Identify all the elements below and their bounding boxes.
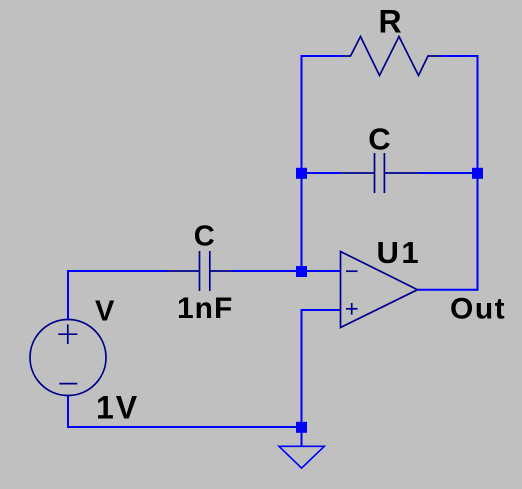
- wire resistor to top right corner: [439, 55, 479, 57]
- wire left feedback vertical: [301, 56, 303, 271]
- voltage source V: [30, 320, 106, 396]
- wire feedback cap right: [419, 172, 478, 174]
- svg-text:1nF: 1nF: [177, 292, 233, 325]
- svg-text:R: R: [379, 4, 402, 40]
- wire junction to ground: [301, 427, 303, 446]
- node junction feedback-left: [296, 168, 307, 179]
- capacitor C feedback: [340, 153, 419, 193]
- wire right feedback vertical: [477, 55, 479, 291]
- svg-text:Out: Out: [450, 292, 506, 325]
- node junction feedback-right: [472, 168, 483, 179]
- wire output: [418, 289, 478, 291]
- svg-text:V: V: [95, 296, 115, 328]
- wire noninverting input: [302, 310, 341, 427]
- wire top left to resistor: [301, 55, 345, 57]
- node junction inverting input: [296, 266, 307, 277]
- capacitor C series: [167, 251, 232, 291]
- ground: [279, 446, 324, 468]
- wire series cap to inverting node: [232, 270, 341, 272]
- svg-text:U1: U1: [377, 235, 422, 270]
- svg-text:C: C: [368, 121, 390, 156]
- svg-text:C: C: [194, 220, 215, 252]
- resistor R: [344, 37, 440, 76]
- svg-text:1V: 1V: [96, 390, 139, 426]
- op-amp U1: [341, 252, 418, 328]
- node junction ground: [296, 422, 307, 433]
- wire feedback cap left: [302, 172, 341, 174]
- wire source top vertical: [68, 271, 167, 320]
- wire bottom from source: [68, 396, 302, 428]
